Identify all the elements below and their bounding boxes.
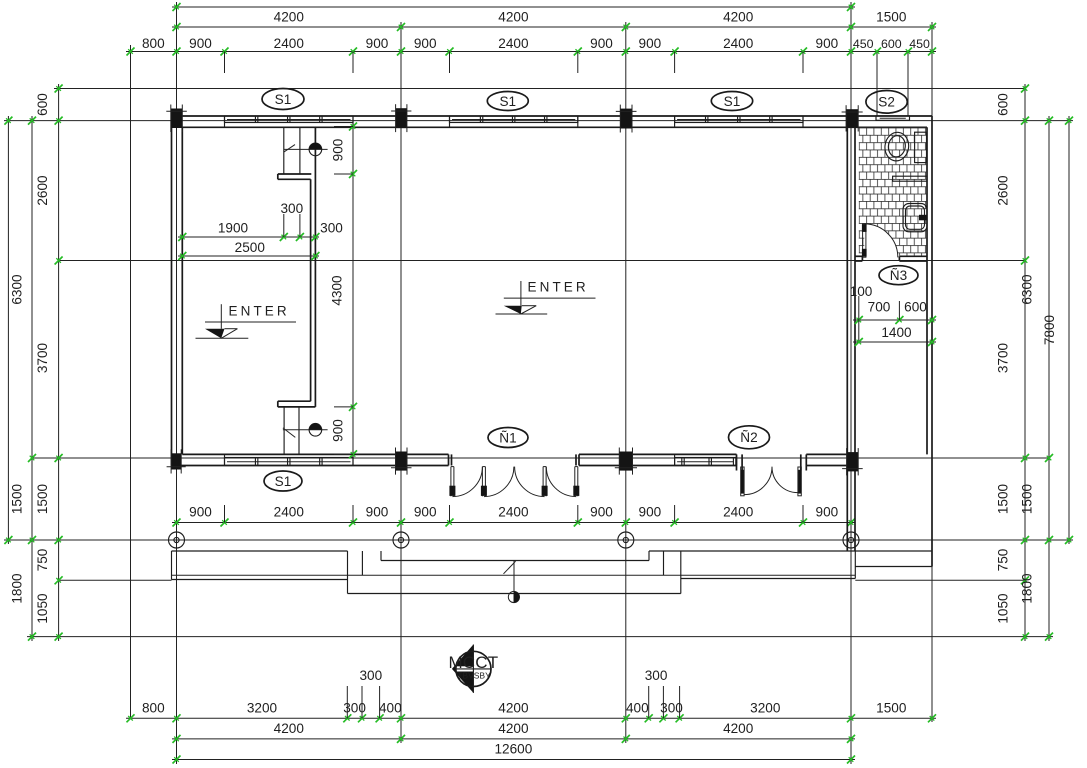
column B2 bottom [396, 452, 408, 471]
grid line axis A vertical [176, 2, 178, 764]
column A2 bottom [171, 453, 181, 469]
svg-text:4300: 4300 [330, 275, 345, 306]
window bottom wall left [225, 458, 354, 466]
svg-text:900: 900 [189, 36, 212, 51]
column C1 top [620, 109, 632, 129]
svg-text:3200: 3200 [247, 701, 278, 716]
svg-text:MCCT: MCCT [448, 653, 498, 672]
svg-text:450: 450 [909, 37, 930, 51]
dimension line left inner x=58 [58, 84, 60, 641]
svg-text:1500: 1500 [876, 10, 907, 25]
stair section marker bottom [283, 429, 328, 431]
svg-text:750: 750 [35, 548, 50, 571]
svg-text:Ñ1: Ñ1 [499, 430, 516, 445]
grid line 2 horizontal y=260 [59, 260, 1025, 262]
svg-text:7800: 7800 [1042, 314, 1057, 345]
label N1 door [488, 428, 528, 448]
svg-text:300: 300 [645, 668, 668, 683]
svg-text:1400: 1400 [881, 325, 912, 340]
stair lines top [283, 127, 285, 174]
svg-text:12600: 12600 [494, 742, 532, 757]
bathroom bottom wall [855, 255, 862, 257]
svg-text:2400: 2400 [723, 36, 754, 51]
svg-text:900: 900 [590, 505, 613, 520]
label N2 door [729, 426, 770, 449]
top wall outer face [172, 115, 933, 117]
svg-text:400: 400 [379, 701, 402, 716]
svg-text:3700: 3700 [35, 342, 50, 373]
dimension line right outer x=1069 [1068, 116, 1070, 544]
svg-text:300: 300 [359, 668, 382, 683]
svg-text:S2: S2 [878, 95, 895, 110]
svg-text:900: 900 [366, 36, 389, 51]
svg-text:Ñ2: Ñ2 [740, 430, 757, 445]
svg-text:1500: 1500 [1020, 483, 1035, 514]
svg-text:900: 900 [189, 505, 212, 520]
extension stubs below top dim row [224, 52, 226, 74]
column C2 bottom [619, 452, 632, 471]
svg-text:900: 900 [816, 36, 839, 51]
grid line axis C vertical [625, 22, 627, 743]
svg-text:S1: S1 [275, 92, 292, 107]
sink [903, 204, 927, 232]
svg-text:300: 300 [343, 701, 366, 716]
svg-text:900: 900 [639, 36, 662, 51]
svg-text:600: 600 [904, 300, 927, 315]
porch slab left edge [171, 551, 173, 580]
annex right wall inner face [926, 127, 928, 454]
svg-text:TBVSBY: TBVSBY [457, 671, 491, 681]
svg-text:800: 800 [142, 36, 165, 51]
dimension line 2500 y=256 [178, 255, 319, 257]
svg-text:1500: 1500 [10, 483, 25, 514]
stair section marker top [284, 148, 328, 150]
door N2 leaf right [798, 467, 801, 496]
svg-text:450: 450 [853, 37, 874, 51]
porch column symbol D [843, 532, 859, 548]
svg-text:3200: 3200 [750, 701, 781, 716]
left wall inner face [181, 127, 183, 454]
svg-text:ENTER: ENTER [528, 280, 589, 295]
dimension line right middle x=1049 [1048, 116, 1050, 641]
label S1 top left [262, 89, 304, 110]
extension line y=88 top [54, 88, 1025, 90]
svg-text:2400: 2400 [498, 36, 529, 51]
label S2 top annex [866, 91, 907, 114]
svg-text:S1: S1 [724, 94, 741, 109]
svg-text:900: 900 [590, 36, 613, 51]
stair lines bottom [283, 407, 285, 455]
svg-text:ENTER: ENTER [229, 303, 290, 318]
dimension line porch 900/2400 row [172, 522, 855, 524]
dimension line bottom row2 4200 [172, 738, 855, 740]
extension line x=130 left offset [130, 45, 132, 718]
extension lines annex 600 window [876, 52, 878, 117]
porch slab top edge [172, 550, 348, 552]
door N3 swing arc [864, 224, 898, 258]
bottom wall inner face segments [182, 453, 448, 455]
door N1 leaf 2 [481, 467, 483, 497]
partition wall double line [314, 127, 316, 407]
label S1 top right [711, 92, 752, 111]
svg-text:2600: 2600 [35, 175, 50, 206]
svg-text:600: 600 [881, 37, 902, 51]
svg-text:4200: 4200 [723, 721, 754, 736]
svg-text:900: 900 [366, 505, 389, 520]
porch slab bottom right [681, 578, 856, 580]
door N1 leaf 4 [574, 467, 576, 497]
svg-text:6300: 6300 [10, 274, 25, 305]
window top wall 224 [225, 116, 354, 123]
stair ledge top [278, 173, 312, 175]
label N3 door [879, 266, 918, 285]
door N1 swing arcs [452, 467, 482, 497]
svg-text:1500: 1500 [996, 483, 1011, 514]
column D2 bottom [847, 452, 859, 471]
extension line y=580 right [855, 579, 1025, 581]
entry direction mark [513, 561, 515, 604]
grid line axis E vertical right edge [931, 22, 933, 722]
dimension line top 4200 row [172, 26, 936, 28]
grid line axis B vertical [400, 22, 402, 743]
svg-text:750: 750 [996, 548, 1011, 571]
grid line 3 horizontal y=458 [32, 457, 1049, 459]
svg-text:4200: 4200 [498, 701, 529, 716]
porch slab inner line [172, 574, 856, 576]
svg-text:Ñ3: Ñ3 [890, 268, 907, 283]
stair ledge bottom [278, 400, 311, 402]
svg-text:900: 900 [639, 505, 662, 520]
window annex 600 top [876, 116, 910, 120]
svg-text:1050: 1050 [35, 593, 50, 624]
dimension line top 900/2400 row [126, 51, 936, 53]
svg-text:6300: 6300 [1020, 274, 1035, 305]
svg-text:2500: 2500 [235, 240, 266, 255]
dimension line top overall [172, 6, 855, 8]
door N2 leaf left [741, 467, 744, 496]
svg-text:2600: 2600 [996, 175, 1011, 206]
svg-text:4200: 4200 [274, 10, 305, 25]
dimension line bottom 12600 [172, 759, 855, 761]
top wall inner face [182, 126, 927, 128]
door N1 leaf 1 [450, 467, 452, 497]
svg-text:1800: 1800 [1020, 573, 1035, 604]
svg-text:300: 300 [660, 701, 683, 716]
window top wall 674 [675, 116, 803, 123]
svg-text:1500: 1500 [876, 701, 907, 716]
column B1 top [396, 108, 407, 128]
svg-text:4200: 4200 [274, 721, 305, 736]
extension line y=580 left [59, 579, 172, 581]
door N2 jambs [736, 454, 738, 470]
svg-text:600: 600 [996, 93, 1011, 116]
MCCT logo [452, 645, 474, 693]
bathroom tile hatch [859, 128, 927, 256]
svg-text:1800: 1800 [10, 573, 25, 604]
label S1 top middle [487, 92, 528, 111]
wall D inner pair [846, 127, 848, 551]
porch step verticals [347, 551, 349, 594]
svg-text:4200: 4200 [498, 721, 529, 736]
svg-text:900: 900 [816, 505, 839, 520]
window bottom wall right partial [675, 458, 737, 466]
svg-text:900: 900 [414, 505, 437, 520]
grid line axis D vertical [850, 2, 852, 764]
door N1 jambs [448, 454, 450, 465]
svg-text:S1: S1 [499, 94, 516, 109]
svg-text:600: 600 [35, 93, 50, 116]
porch column symbol A [169, 532, 185, 548]
toilet [883, 131, 910, 163]
column D1 top [846, 109, 858, 127]
svg-text:1900: 1900 [218, 221, 249, 236]
dimension line left middle x=32 [31, 116, 33, 641]
svg-text:1500: 1500 [35, 483, 50, 514]
svg-text:3700: 3700 [996, 342, 1011, 373]
svg-text:300: 300 [320, 221, 343, 236]
svg-text:900: 900 [414, 36, 437, 51]
porch right edge [854, 551, 856, 579]
window top wall 449 [450, 116, 578, 123]
svg-text:2400: 2400 [723, 505, 754, 520]
grid line 1 horizontal y=120 [4, 120, 1073, 122]
bathroom shelf [893, 176, 927, 181]
dimension line 900/4300/900 vertical x=353 [352, 120, 354, 458]
porch column symbol B [393, 532, 409, 548]
svg-text:800: 800 [142, 701, 165, 716]
dimension line 1900/300 y=237 [178, 236, 319, 238]
porch step line 2 [348, 593, 681, 595]
svg-text:S1: S1 [275, 474, 292, 489]
svg-text:900: 900 [331, 419, 346, 442]
svg-text:100: 100 [850, 284, 873, 299]
dimension line 1400 annex [853, 341, 936, 343]
svg-text:400: 400 [626, 701, 649, 716]
column A1 top [171, 109, 183, 129]
porch slab bottom left [172, 579, 348, 581]
svg-text:300: 300 [280, 201, 303, 216]
grid line 4 horizontal y=540 [4, 539, 1073, 541]
left wall outer face [171, 116, 173, 466]
annex right wall outer face [931, 116, 933, 567]
dimension line right inner x=1025 [1024, 84, 1026, 641]
door N3 swing clear [864, 224, 898, 258]
dimension line 700/600 annex [853, 319, 936, 321]
bottom wall outer face segments [172, 465, 449, 467]
door N1 leaf 3 [542, 467, 544, 497]
svg-text:2400: 2400 [498, 505, 529, 520]
svg-text:900: 900 [331, 138, 346, 161]
toilet tank [915, 132, 927, 162]
annex slab edge [855, 566, 932, 568]
svg-text:4200: 4200 [498, 10, 529, 25]
svg-text:4200: 4200 [723, 10, 754, 25]
svg-text:700: 700 [868, 300, 891, 315]
dimension line bottom row1 [126, 717, 936, 719]
porch step line 1 [381, 560, 649, 562]
door N2 swing arcs [744, 467, 772, 495]
dimension line left outer x=8 [7, 116, 9, 544]
label S1 bottom [264, 471, 302, 491]
svg-text:1050: 1050 [996, 593, 1011, 624]
svg-text:2400: 2400 [274, 505, 305, 520]
extension line y=637 bottom [27, 636, 1053, 638]
svg-text:2400: 2400 [274, 36, 305, 51]
door N3 leaf [863, 224, 866, 257]
extension stubs above bottom row1 [346, 686, 348, 718]
porch column symbol C [618, 532, 634, 548]
